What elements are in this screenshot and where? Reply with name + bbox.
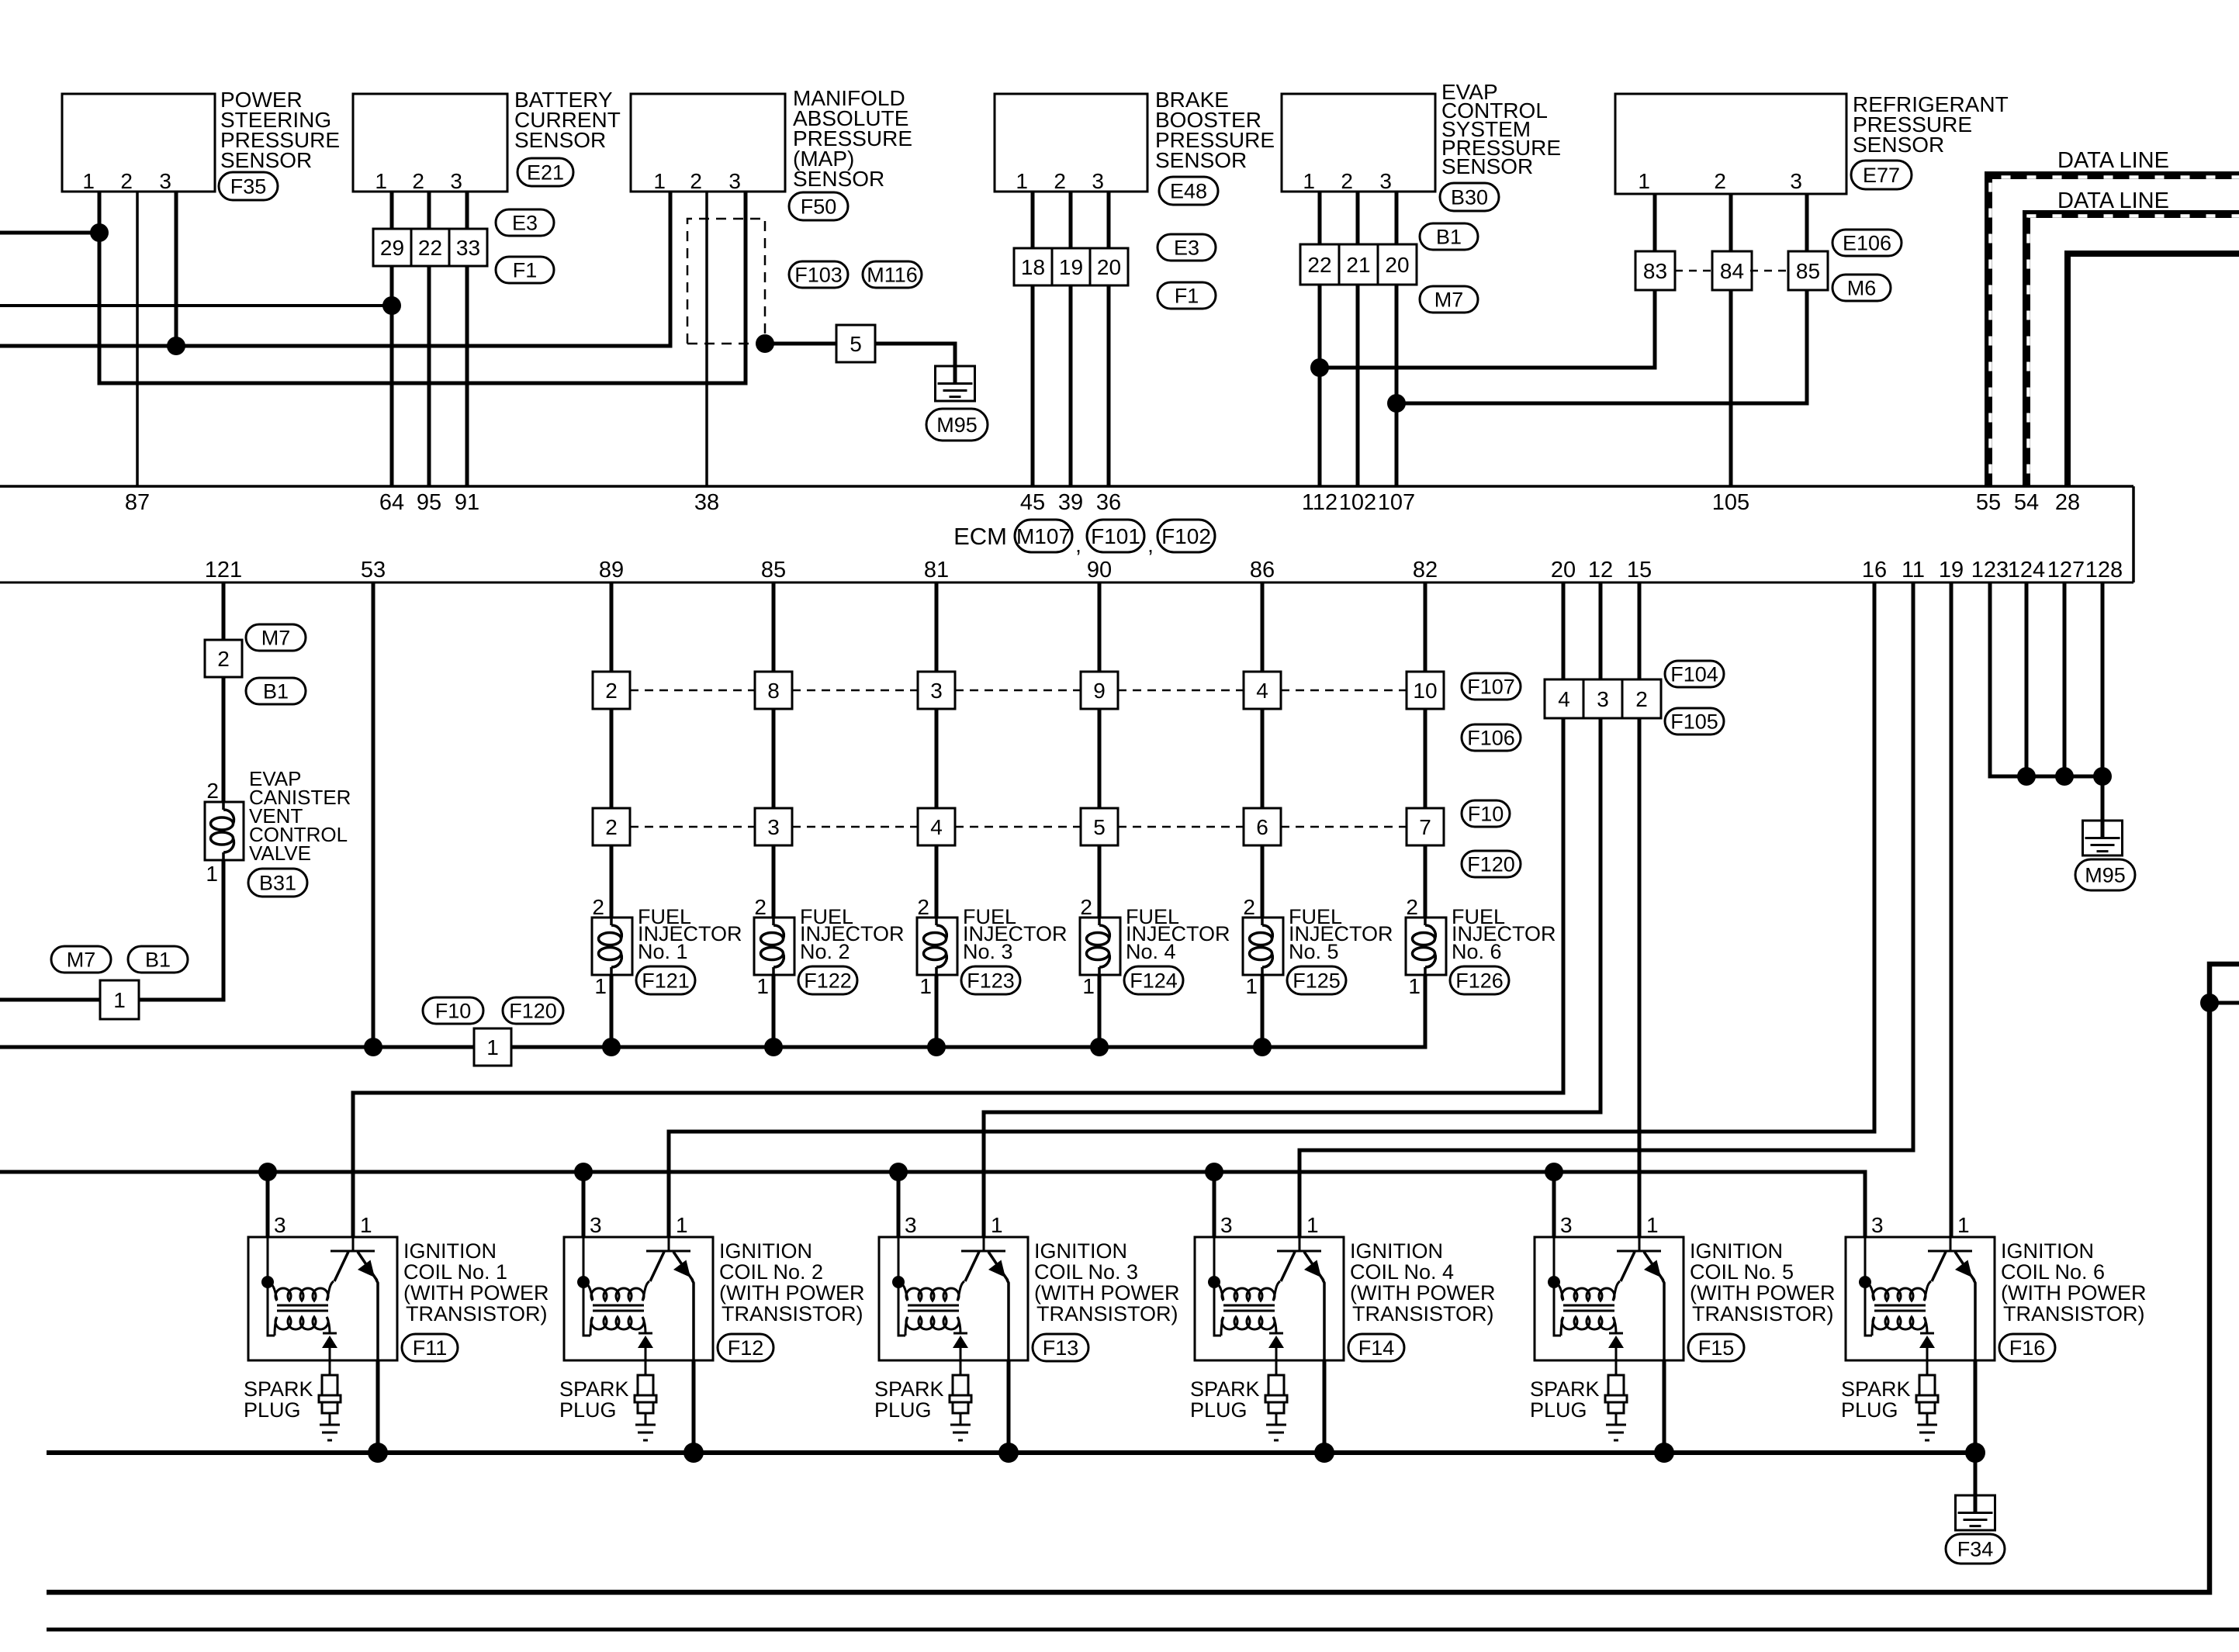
- wire PS pin1 vertical: [99, 192, 746, 383]
- svg-text:64: 64: [379, 490, 404, 515]
- spark plug No.3: [950, 1360, 971, 1440]
- svg-text:28: 28: [2055, 490, 2080, 515]
- svg-text:(WITH POWER: (WITH POWER: [1350, 1281, 1495, 1305]
- label SPARK PLUG 6: [1841, 1377, 1911, 1422]
- connector box 5 (F103/M116): [836, 325, 875, 362]
- wire brake pin1 to ECM 45: [1031, 192, 1035, 486]
- wire ECM 85 to fuel injector No. 2: [772, 582, 776, 1047]
- svg-text:SPARK: SPARK: [1530, 1377, 1600, 1401]
- svg-text:E3: E3: [1174, 237, 1199, 260]
- svg-text:,: ,: [1147, 533, 1154, 557]
- svg-text:85: 85: [761, 558, 786, 582]
- svg-text:COIL No. 2: COIL No. 2: [719, 1260, 823, 1284]
- connector oval M7 lower-left: [51, 946, 111, 973]
- svg-text:1: 1: [82, 169, 95, 193]
- svg-text:TRANSISTOR): TRANSISTOR): [2003, 1302, 2145, 1325]
- svg-text:1: 1: [113, 988, 126, 1012]
- bottom bus y2101: [47, 1628, 2239, 1632]
- svg-text:2: 2: [412, 169, 424, 193]
- wire EVAP sensor pin3 to ECM 107: [1395, 192, 1399, 486]
- svg-text:PLUG: PLUG: [874, 1398, 932, 1422]
- fuel injector No. 5 component box: [1243, 895, 1283, 998]
- svg-text:F16: F16: [2009, 1336, 2046, 1360]
- ECM box: [0, 486, 2133, 582]
- ignition coil No. 6 box: [1846, 1213, 1995, 1360]
- junction coil 3 pin3 / power bus: [889, 1163, 908, 1181]
- svg-text:SPARK: SPARK: [1190, 1377, 1260, 1401]
- svg-text:5: 5: [1093, 815, 1106, 839]
- svg-text:M95: M95: [936, 413, 978, 437]
- svg-text:M95: M95: [2085, 864, 2126, 887]
- brake booster pressure sensor E48 box: [995, 94, 1147, 193]
- connector oval B1 lower-left: [128, 946, 188, 973]
- svg-text:COIL No. 1: COIL No. 1: [403, 1260, 507, 1284]
- wire ECM 121 to valve pin2: [222, 582, 226, 802]
- dashed link row1: [1281, 689, 1407, 692]
- label SPARK PLUG 2: [559, 1377, 629, 1422]
- wire valve pin1 to connector 1 and page edge: [0, 860, 223, 1000]
- svg-text:20: 20: [1385, 253, 1409, 277]
- bus wire y300 from page edge to PS pin1: [0, 231, 99, 235]
- label BRAKE BOOSTER PRESSURE SENSOR: [1155, 88, 1275, 172]
- off-page bundle vertical with bottom bus: [47, 964, 2239, 1592]
- connector square 6 row2 injector 5: [1244, 808, 1281, 845]
- wire ECM 53 down to bus: [372, 582, 375, 1047]
- svg-text:2: 2: [605, 815, 618, 839]
- svg-text:PLUG: PLUG: [559, 1398, 617, 1422]
- connector oval F107: [1462, 673, 1521, 700]
- junction coil 2 pin2 / ground bus: [683, 1443, 704, 1463]
- connector oval E3 brake: [1158, 234, 1216, 261]
- connector square 2 row1 injector 1: [593, 672, 630, 709]
- svg-text:95: 95: [417, 490, 441, 515]
- junction 124/ground bus: [2017, 767, 2036, 786]
- svg-text:3: 3: [1560, 1213, 1573, 1237]
- svg-text:3: 3: [1790, 169, 1802, 193]
- svg-text:F1: F1: [513, 259, 538, 282]
- connector oval F122: [798, 966, 857, 994]
- dashed link row2: [630, 826, 755, 828]
- svg-text:IGNITION: IGNITION: [2001, 1239, 2094, 1263]
- battery current sensor E21 box: [353, 94, 507, 193]
- svg-text:F104: F104: [1670, 663, 1718, 686]
- connector oval F1 brake: [1158, 282, 1216, 309]
- svg-text:90: 90: [1087, 558, 1112, 582]
- svg-text:3: 3: [1597, 687, 1609, 711]
- wire ECM 89 to fuel injector No. 1: [610, 582, 614, 1047]
- svg-text:(WITH POWER: (WITH POWER: [1034, 1281, 1179, 1305]
- svg-text:IGNITION: IGNITION: [1034, 1239, 1127, 1263]
- svg-text:21: 21: [1346, 253, 1370, 277]
- connector oval E77: [1851, 161, 1912, 189]
- svg-text:M7: M7: [261, 627, 291, 650]
- connector oval B1 evap: [1420, 223, 1478, 250]
- label MANIFOLD ABSOLUTE PRESSURE (MAP) SENSOR: [793, 86, 912, 191]
- label EVAP CANISTER VENT CONTROL VALVE: [249, 767, 351, 865]
- label SPARK PLUG 5: [1530, 1377, 1600, 1422]
- svg-text:53: 53: [361, 558, 386, 582]
- svg-text:F13: F13: [1043, 1336, 1079, 1360]
- svg-text:E21: E21: [527, 161, 564, 185]
- svg-text:IGNITION: IGNITION: [1690, 1239, 1783, 1263]
- junction battery pin1 / bus394: [382, 296, 401, 315]
- connector oval B31: [248, 869, 307, 897]
- svg-text:2: 2: [1054, 169, 1066, 193]
- svg-text:3: 3: [728, 169, 741, 193]
- svg-text:F15: F15: [1698, 1336, 1735, 1360]
- svg-text:F10: F10: [1468, 803, 1504, 826]
- fuel injector No. 2 component box: [754, 895, 794, 998]
- connector square 4 row1 injector 5: [1244, 672, 1281, 709]
- svg-text:1: 1: [1082, 974, 1095, 998]
- svg-text:SPARK: SPARK: [244, 1377, 313, 1401]
- svg-text:112: 112: [1302, 490, 1338, 515]
- svg-text:1: 1: [1957, 1213, 1970, 1237]
- svg-text:1: 1: [919, 974, 932, 998]
- svg-text:B1: B1: [263, 680, 289, 703]
- ECM bottom pin labels: [205, 558, 2123, 582]
- svg-text:1: 1: [991, 1213, 1003, 1237]
- label IGNITION COIL No. 4 (WITH POWER TRANSISTOR): [1350, 1239, 1495, 1325]
- svg-text:B31: B31: [259, 872, 296, 895]
- connector row 18 19 20 (E3/F1): [1014, 248, 1128, 285]
- svg-text:E48: E48: [1170, 180, 1207, 203]
- wire ignition coil No.3 pin3 from power bus: [897, 1172, 901, 1237]
- svg-text:11: 11: [1902, 558, 1925, 582]
- dashed link row2: [1281, 826, 1407, 828]
- spark plug No.1: [319, 1360, 341, 1440]
- wire coil6 ground to F34: [1974, 1453, 1978, 1495]
- wire ignition coil No.4 pin3 from power bus: [1213, 1172, 1216, 1237]
- svg-text:2: 2: [206, 779, 219, 803]
- svg-text:M7: M7: [1434, 289, 1464, 312]
- wire coil 5 pin2 to ground bus: [1663, 1360, 1666, 1453]
- svg-text:5: 5: [850, 332, 862, 356]
- svg-text:SENSOR: SENSOR: [793, 167, 884, 191]
- data line wire to ECM 54: [2026, 214, 2239, 486]
- svg-text:COIL No. 5: COIL No. 5: [1690, 1260, 1794, 1284]
- svg-text:2: 2: [1341, 169, 1353, 193]
- svg-text:87: 87: [125, 490, 150, 515]
- dashed link row1: [792, 689, 918, 692]
- fuel injector No. 6 component box: [1406, 895, 1446, 998]
- spark plug No.2: [635, 1360, 656, 1440]
- MAP sensor F50 box: [631, 94, 785, 193]
- fuel injector No. 1 component box: [592, 895, 632, 998]
- wire ECM 19 to ignition coil No.6 pin1: [1950, 582, 1954, 1237]
- svg-text:SENSOR: SENSOR: [1441, 154, 1533, 178]
- svg-text:F105: F105: [1670, 710, 1718, 734]
- svg-text:F14: F14: [1358, 1336, 1395, 1360]
- connector square 1 (M7/B1) lower-left: [100, 980, 139, 1019]
- svg-text:36: 36: [1096, 490, 1121, 515]
- svg-text:1: 1: [375, 169, 387, 193]
- junction coil 2 pin3 / power bus: [574, 1163, 593, 1181]
- ground oval F34: [1946, 1534, 2005, 1564]
- junction 128/ground bus: [2093, 767, 2112, 786]
- connector oval F11: [402, 1334, 458, 1361]
- connector square 4 row2 injector 3: [918, 808, 955, 845]
- svg-text:F123: F123: [967, 969, 1015, 993]
- svg-text:1: 1: [1016, 169, 1028, 193]
- svg-text:SPARK: SPARK: [1841, 1377, 1911, 1401]
- connector oval F120 row2: [1462, 851, 1521, 877]
- ignition coil power bus y1511: [0, 1172, 1865, 1237]
- svg-text:,: ,: [1075, 533, 1081, 557]
- svg-text:No. 6: No. 6: [1452, 940, 1502, 963]
- wire refrigerant pin3 to connector 85 and bus520: [1396, 194, 1807, 403]
- connector oval B30: [1440, 183, 1499, 211]
- svg-text:102: 102: [1339, 490, 1376, 515]
- junction ECM53/bus: [364, 1038, 382, 1056]
- svg-text:F121: F121: [642, 969, 690, 993]
- wire ECM 12 to ignition coil No.3 pin1: [984, 582, 1601, 1237]
- connector oval F126: [1450, 966, 1509, 994]
- connector square 3 row1 injector 3: [918, 672, 955, 709]
- svg-text:4: 4: [1558, 687, 1570, 711]
- connector oval F124: [1124, 966, 1183, 994]
- svg-text:105: 105: [1712, 490, 1749, 515]
- label FUEL INJECTOR No. 4: [1126, 905, 1230, 963]
- off-page wire right lower: [2210, 1001, 2239, 1005]
- dashed link row2: [1118, 826, 1244, 828]
- refrigerant pressure sensor E77 box: [1615, 94, 1846, 194]
- junction injector 3 / supply bus: [927, 1038, 946, 1056]
- fuel injector No. 3 component box: [917, 895, 957, 998]
- junction off-page branch: [2200, 994, 2219, 1012]
- junction coil 1 pin2 / ground bus: [368, 1443, 388, 1463]
- svg-text:VALVE: VALVE: [249, 842, 311, 865]
- svg-text:19: 19: [1059, 255, 1083, 279]
- connector square 1 (F10/F120): [474, 1028, 511, 1066]
- injector supply bus y1350: [0, 1045, 1427, 1049]
- svg-text:86: 86: [1250, 558, 1275, 582]
- spark plug No.6: [1916, 1360, 1938, 1440]
- spark plug No.5: [1605, 1360, 1627, 1440]
- svg-text:1: 1: [676, 1213, 688, 1237]
- svg-text:F126: F126: [1455, 969, 1504, 993]
- ground oval M95 right: [2075, 859, 2135, 890]
- connector oval F10 row2: [1462, 800, 1510, 827]
- junction coil 6 pin2 / ground bus: [1965, 1443, 1985, 1463]
- svg-text:No. 3: No. 3: [963, 940, 1013, 963]
- svg-text:20: 20: [1551, 558, 1576, 582]
- connector oval E3 battery: [496, 209, 554, 236]
- svg-text:45: 45: [1020, 490, 1045, 515]
- connector oval M116: [863, 261, 922, 288]
- svg-text:F35: F35: [230, 175, 267, 199]
- svg-text:No. 2: No. 2: [800, 940, 850, 963]
- svg-text:ECM: ECM: [953, 523, 1007, 550]
- svg-text:2: 2: [1635, 687, 1648, 711]
- wire PS pin2 to ECM 87: [136, 192, 139, 486]
- dashed link row1: [1118, 689, 1244, 692]
- svg-text:M116: M116: [867, 264, 918, 287]
- svg-text:1: 1: [1306, 1213, 1319, 1237]
- svg-text:16: 16: [1862, 558, 1887, 582]
- svg-text:38: 38: [694, 490, 719, 515]
- svg-text:F34: F34: [1957, 1538, 1994, 1561]
- wire coil 3 pin2 to ground bus: [1007, 1360, 1011, 1453]
- connector oval E21: [517, 158, 573, 186]
- connector oval F13: [1033, 1334, 1088, 1361]
- wire ECM 123 down: [1990, 582, 2102, 776]
- svg-text:9: 9: [1093, 679, 1106, 703]
- wire MAP pin2 to ECM 38: [705, 192, 708, 486]
- svg-text:22: 22: [1307, 253, 1331, 277]
- svg-text:20: 20: [1097, 255, 1121, 279]
- svg-text:SENSOR: SENSOR: [220, 148, 312, 172]
- connector oval F15: [1688, 1334, 1744, 1361]
- wire refrigerant pin1 to connector 83 and bus474: [1320, 194, 1655, 368]
- wire battery pin3 to ECM 91: [465, 192, 469, 486]
- junction coil 4 pin3 / power bus: [1205, 1163, 1223, 1181]
- svg-text:84: 84: [1720, 259, 1744, 283]
- ground symbol M95 right: [2083, 821, 2123, 855]
- junction 127/ground bus: [2055, 767, 2074, 786]
- ECM name label with connector ovals M107 F101 F102: [953, 520, 1215, 557]
- ignition coil No. 4 box: [1195, 1213, 1344, 1360]
- dashed link row1: [630, 689, 755, 692]
- svg-text:8: 8: [767, 679, 780, 703]
- svg-text:81: 81: [924, 558, 949, 582]
- label FUEL INJECTOR No. 6: [1452, 905, 1556, 963]
- connector row 22 21 20 (B1/M7): [1300, 244, 1417, 285]
- svg-text:4: 4: [1256, 679, 1268, 703]
- svg-text:F106: F106: [1467, 727, 1515, 750]
- wire ECM 86 to fuel injector No. 5: [1261, 582, 1265, 1047]
- wire battery pin2 to ECM 95: [427, 192, 431, 486]
- svg-text:F107: F107: [1467, 676, 1515, 699]
- svg-text:82: 82: [1413, 558, 1438, 582]
- svg-text:91: 91: [455, 490, 479, 515]
- svg-text:127: 127: [2047, 558, 2085, 582]
- ground wire from shield to connector 5: [765, 342, 836, 346]
- svg-text:2: 2: [592, 895, 604, 919]
- wire coil 1 pin2 to ground bus: [376, 1360, 380, 1453]
- label IGNITION COIL No. 6 (WITH POWER TRANSISTOR): [2001, 1239, 2146, 1325]
- connector oval M6: [1832, 275, 1891, 301]
- svg-text:6: 6: [1256, 815, 1268, 839]
- svg-text:M107: M107: [1016, 524, 1071, 548]
- svg-text:DATA LINE: DATA LINE: [2057, 188, 2169, 213]
- svg-text:2: 2: [1243, 895, 1255, 919]
- label SPARK PLUG 1: [244, 1377, 313, 1422]
- connector oval F125: [1287, 966, 1346, 994]
- wire EVAP sensor pin2 to ECM 102: [1356, 192, 1360, 486]
- svg-text:89: 89: [599, 558, 624, 582]
- svg-text:E106: E106: [1843, 232, 1891, 255]
- svg-text:No. 1: No. 1: [638, 940, 688, 963]
- ground symbol F34: [1956, 1495, 1995, 1530]
- svg-text:7: 7: [1419, 815, 1431, 839]
- svg-text:F103: F103: [794, 264, 843, 287]
- svg-text:3: 3: [590, 1213, 602, 1237]
- connector oval F16: [1999, 1334, 2055, 1361]
- svg-text:107: 107: [1378, 490, 1415, 515]
- svg-text:2: 2: [1714, 169, 1726, 193]
- svg-text:B30: B30: [1451, 186, 1488, 209]
- junction PS pin3 / bus446: [167, 337, 185, 355]
- ignition coil No. 2 box: [564, 1213, 713, 1360]
- wire coil 6 pin2 to ground bus: [1974, 1360, 1978, 1453]
- ignition coil No. 5 box: [1535, 1213, 1684, 1360]
- svg-text:F101: F101: [1091, 524, 1140, 548]
- wire ECM 15 to ignition coil No.5 pin1: [1638, 582, 1642, 1237]
- wire EVAP sensor pin1 to ECM 112: [1318, 192, 1322, 486]
- svg-text:1: 1: [1638, 169, 1650, 193]
- junction shield / ground wire: [756, 334, 774, 353]
- svg-text:2: 2: [217, 647, 230, 671]
- wire brake pin2 to ECM 39: [1069, 192, 1073, 486]
- svg-text:F50: F50: [801, 195, 837, 219]
- svg-text:1: 1: [756, 974, 769, 998]
- svg-text:B1: B1: [145, 949, 171, 972]
- connector oval F50: [789, 192, 848, 220]
- label FUEL INJECTOR No. 3: [963, 905, 1068, 963]
- data line wire to ECM 55: [1988, 175, 2239, 486]
- svg-text:IGNITION: IGNITION: [719, 1239, 812, 1263]
- svg-text:3: 3: [930, 679, 943, 703]
- svg-text:F10: F10: [435, 1000, 472, 1023]
- svg-text:3: 3: [1871, 1213, 1884, 1237]
- svg-text:SPARK: SPARK: [559, 1377, 629, 1401]
- svg-text:1: 1: [1303, 169, 1315, 193]
- svg-text:1: 1: [653, 169, 666, 193]
- wire ECM 11 to ignition coil No.4 pin1: [1299, 582, 1913, 1237]
- svg-text:2: 2: [917, 895, 929, 919]
- svg-text:PLUG: PLUG: [1841, 1398, 1898, 1422]
- svg-text:F12: F12: [728, 1336, 764, 1360]
- connector oval E48: [1159, 177, 1218, 205]
- svg-text:12: 12: [1588, 558, 1613, 582]
- wire battery pin1 to ECM 64: [390, 192, 394, 486]
- svg-text:1: 1: [206, 862, 218, 886]
- ground oval M95 left: [926, 409, 988, 441]
- svg-text:PLUG: PLUG: [1530, 1398, 1587, 1422]
- svg-text:SPARK: SPARK: [874, 1377, 944, 1401]
- connector squares 83 84 85 (E106/M6): [1635, 251, 1828, 290]
- ignition coil ground bus y1873: [47, 1450, 1975, 1455]
- label FUEL INJECTOR No. 2: [800, 905, 905, 963]
- junction PS pin1 / bus300: [90, 223, 109, 242]
- svg-text:2: 2: [690, 169, 702, 193]
- connector oval F123: [961, 966, 1020, 994]
- svg-text:No. 5: No. 5: [1289, 940, 1339, 963]
- connector oval F104: [1665, 661, 1724, 687]
- ignition coil No. 3 box: [879, 1213, 1028, 1360]
- junction coil 5 pin3 / power bus: [1545, 1163, 1563, 1181]
- junction coil 3 pin2 / ground bus: [998, 1443, 1019, 1463]
- svg-text:1: 1: [1646, 1213, 1659, 1237]
- junction EVAP pin1 / bus474: [1310, 358, 1329, 377]
- svg-text:19: 19: [1939, 558, 1964, 582]
- connector oval F35: [219, 172, 278, 200]
- svg-text:M6: M6: [1847, 277, 1877, 300]
- svg-text:83: 83: [1643, 259, 1667, 283]
- connector square 3 row2 injector 2: [755, 808, 792, 845]
- connector oval F12: [718, 1334, 773, 1361]
- svg-text:2: 2: [1080, 895, 1092, 919]
- svg-text:No. 4: No. 4: [1126, 940, 1176, 963]
- ignition coil No. 1 box: [248, 1213, 397, 1360]
- svg-text:15: 15: [1627, 558, 1652, 582]
- svg-text:3: 3: [450, 169, 462, 193]
- svg-text:22: 22: [418, 236, 442, 260]
- label REFRIGERANT PRESSURE SENSOR: [1853, 92, 2009, 157]
- svg-text:54: 54: [2014, 490, 2039, 515]
- EVAP control system pressure sensor B30 box: [1282, 94, 1435, 193]
